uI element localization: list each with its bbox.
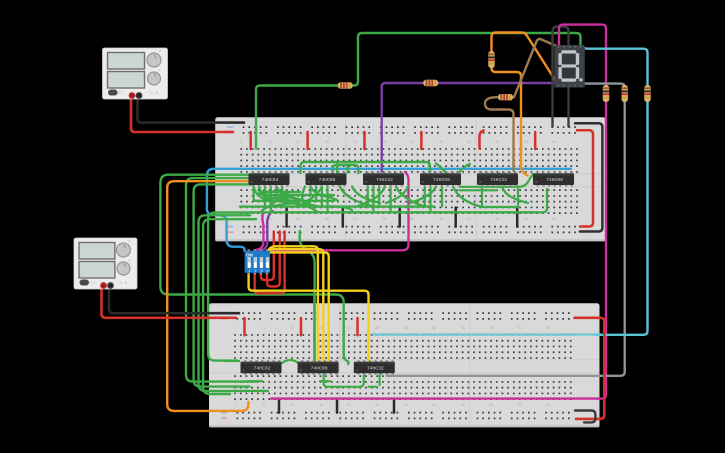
svg-text:1: 1: [248, 269, 250, 273]
svg-text:41: 41: [461, 326, 465, 330]
svg-text:··: ··: [261, 255, 266, 259]
svg-text:ON: ON: [246, 253, 253, 258]
svg-text:56: 56: [552, 217, 556, 221]
svg-text:46: 46: [495, 140, 499, 144]
svg-text:56: 56: [546, 403, 550, 407]
svg-text:⚖ 𝐞: ⚖ 𝐞: [149, 91, 158, 96]
svg-text:41: 41: [467, 140, 471, 144]
svg-text:↗: ↗: [128, 240, 131, 245]
svg-text:51: 51: [518, 403, 522, 407]
svg-text:26: 26: [382, 217, 386, 221]
svg-text:↗: ↗: [158, 69, 161, 74]
svg-text:36: 36: [439, 140, 443, 144]
svg-text:16: 16: [325, 217, 329, 221]
svg-text:↗: ↗: [128, 259, 131, 264]
svg-text:41: 41: [461, 403, 465, 407]
svg-text:16: 16: [319, 403, 323, 407]
svg-text:56: 56: [546, 326, 550, 330]
svg-text:6: 6: [269, 140, 271, 144]
svg-text:31: 31: [404, 326, 408, 330]
svg-text:74HC32: 74HC32: [490, 177, 507, 183]
svg-text:⚖ 𝐞: ⚖ 𝐞: [119, 281, 128, 286]
svg-text:26: 26: [375, 326, 379, 330]
svg-text:46: 46: [489, 403, 493, 407]
svg-text:74HC32: 74HC32: [376, 177, 393, 183]
svg-text:31: 31: [410, 217, 414, 221]
svg-text:31: 31: [404, 403, 408, 407]
svg-text:1: 1: [240, 140, 242, 144]
svg-text:74HC08: 74HC08: [319, 177, 336, 183]
svg-text:21: 21: [353, 217, 357, 221]
svg-text:74HC08: 74HC08: [433, 177, 450, 183]
svg-text:36: 36: [432, 403, 436, 407]
svg-text:51: 51: [524, 140, 528, 144]
svg-text:31: 31: [410, 140, 414, 144]
svg-text:4: 4: [267, 269, 269, 273]
svg-text:74HC08: 74HC08: [311, 365, 328, 371]
svg-text:11: 11: [290, 403, 294, 407]
svg-text:74HC08: 74HC08: [546, 177, 563, 183]
svg-text:1: 1: [234, 326, 236, 330]
svg-text:36: 36: [432, 326, 436, 330]
svg-text:46: 46: [495, 217, 499, 221]
svg-text:56: 56: [552, 140, 556, 144]
svg-text:3: 3: [260, 269, 262, 273]
svg-text:6: 6: [263, 326, 265, 330]
svg-text:51: 51: [518, 326, 522, 330]
svg-text:11: 11: [296, 217, 300, 221]
svg-text:11: 11: [296, 140, 300, 144]
svg-text:11: 11: [290, 326, 294, 330]
svg-text:6: 6: [263, 403, 265, 407]
svg-text:36: 36: [439, 217, 443, 221]
svg-text:51: 51: [524, 217, 528, 221]
svg-text:46: 46: [489, 326, 493, 330]
svg-text:2: 2: [254, 269, 256, 273]
svg-text:21: 21: [347, 326, 351, 330]
svg-text:74HC04: 74HC04: [262, 177, 279, 183]
svg-text:1: 1: [234, 403, 236, 407]
svg-text:21: 21: [347, 403, 351, 407]
svg-text:16: 16: [325, 140, 329, 144]
svg-text:21: 21: [353, 140, 357, 144]
svg-text:↗: ↗: [158, 50, 161, 55]
svg-text:41: 41: [467, 217, 471, 221]
svg-text:74HC32: 74HC32: [254, 365, 271, 371]
svg-text:26: 26: [375, 403, 379, 407]
svg-text:74HC32: 74HC32: [367, 365, 384, 371]
